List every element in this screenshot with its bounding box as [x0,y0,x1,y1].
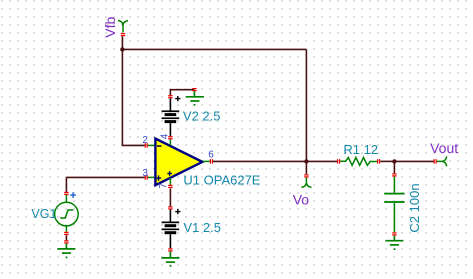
node A junction dot [120,47,124,51]
node C junction dot [392,159,396,163]
ground for V1 [161,252,179,263]
V1 top lead [169,210,171,222]
V2 bottom lead [169,123,171,136]
pin-end marker ground V1 [168,248,172,251]
V2 plus sign [175,96,180,101]
VG1 plus sign [70,192,76,198]
source VG1 [31,177,78,235]
wire pin7 to V1 [169,188,171,206]
pin-end marker VG1 minus terminal [64,232,68,235]
node B junction dot [304,159,308,163]
pin-end marker pin6 [210,159,213,163]
pin-end marker VG1 plus terminal [64,192,68,195]
wire V2 top to ground [170,90,194,96]
wire Vfb stub [121,36,123,49]
VG1 bottom lead [65,226,67,232]
pin-end marker R1 right [377,159,380,163]
pin-end marker pin3 [145,175,148,179]
V1 plates [162,222,180,235]
wire feedback left vertical to pin2 [122,49,144,145]
wire feedback right vertical [305,49,307,161]
svg-text:R1 12: R1 12 [343,142,378,157]
wire VG1 top [65,177,67,192]
battery V1 [162,188,221,248]
pin-end marker C2 bottom [392,232,396,235]
wire Vo stub [305,161,307,174]
pin-end marker pin2 [145,143,148,147]
pin-end marker Vout [434,159,437,163]
op-amp plus mark input [156,175,161,180]
pin 3 lead [148,176,155,178]
pin-end marker R1 left [337,159,340,163]
wire R1 to node C [380,160,394,162]
svg-text:C2 100n: C2 100n [407,183,422,232]
pin 4 lead [169,139,171,145]
wire node B to R1 [306,160,337,162]
pin-end marker ground VG1 [64,240,68,243]
V2 plates [162,110,180,123]
op-amp plus mark supply [167,171,172,176]
pin 2 lead [148,144,155,146]
svg-text:Vout: Vout [430,140,458,156]
wire output to node B [213,160,307,162]
VG1 circle [55,202,79,226]
svg-text:4: 4 [160,133,171,139]
pin-end marker C2 top [392,173,396,176]
V1 plus sign [175,209,180,214]
svg-text:2: 2 [142,135,148,146]
wire VG1 to pin3 [66,176,144,178]
svg-text:Vo: Vo [293,192,310,208]
V2 top lead [169,98,171,110]
svg-text:3: 3 [142,168,148,179]
resistor R1 [340,158,377,166]
VG1 step waveform [60,210,73,218]
wire feedback top horizontal [122,48,306,50]
pin-end marker V2 plus terminal [168,95,172,98]
capacitor C2 [384,177,422,233]
wire node C to Vout [394,160,433,162]
svg-text:VG1: VG1 [31,207,56,221]
ground for VG1 [57,244,75,254]
ground for V2 [186,91,204,101]
svg-text:Vfb: Vfb [102,16,118,37]
svg-text:7: 7 [158,183,169,189]
voltage pin Vfb [118,21,128,33]
pin-end marker Vo [304,174,308,177]
op-amp U1 triangle [155,139,202,186]
VG1 top lead [65,195,67,203]
voltage pin Vo [301,178,311,188]
pin 6 lead [203,160,210,162]
battery V2 [162,90,221,136]
pin-end marker Vfb [121,33,125,36]
svg-text:V2 2.5: V2 2.5 [183,109,221,124]
pin 7 lead [169,178,171,185]
wire node C to C2 [393,161,395,173]
voltage pin Vout [437,156,447,166]
svg-text:U1 OPA627E: U1 OPA627E [183,172,260,187]
op-amp minus mark [157,145,161,147]
ground for C2 [385,236,403,245]
pin-end marker pin7 [168,185,172,188]
pin-end marker pin4 [168,136,172,139]
svg-text:6: 6 [208,150,214,161]
svg-text:V1 2.5: V1 2.5 [183,220,221,235]
V1 bottom lead [169,234,171,248]
wire VG1 to ground [65,235,67,240]
pin-end marker ground V2 [192,88,196,91]
pin-end marker V1 plus terminal [168,206,172,209]
